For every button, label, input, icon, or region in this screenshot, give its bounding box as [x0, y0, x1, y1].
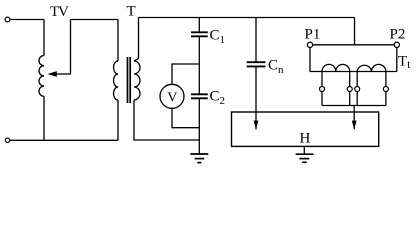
wire Cn bottom lead with arrow into H box — [255, 66, 257, 129]
wire top main bus — [139, 17, 355, 19]
terminal J1 (top-left input) — [5, 17, 10, 22]
svg-text:P2: P2 — [390, 27, 406, 43]
svg-text:T: T — [127, 4, 136, 20]
svg-text:V: V — [167, 90, 177, 105]
wire Tt stub 4 — [385, 72, 387, 106]
transformer T core — [128, 57, 131, 103]
svg-text:Tt: Tt — [398, 54, 411, 72]
terminal P1 — [307, 42, 312, 47]
wire voltmeter bottom branch — [172, 108, 199, 127]
wire Tt stub 3 — [356, 72, 358, 106]
wire Tt bottom bar — [310, 71, 397, 73]
wire Tt top feed — [354, 18, 356, 45]
wire voltmeter top branch — [172, 64, 199, 84]
transformer T primary winding — [114, 61, 118, 100]
svg-text:C2: C2 — [210, 89, 226, 108]
ground G1 — [198, 140, 200, 154]
wire C1-C2 link — [198, 36, 200, 94]
wire Tt bottom bus — [322, 105, 386, 107]
wire Tt stub 1 — [321, 72, 323, 106]
wire top-left: terminal to TV top — [10, 19, 44, 21]
wire Cn top lead — [255, 18, 257, 63]
Tt winding W1 — [322, 64, 350, 71]
capacitor C1 — [191, 32, 208, 36]
terminal J2 (bottom-left input) — [5, 138, 9, 142]
svg-text:P1: P1 — [305, 27, 321, 43]
wire bottom-left bus — [10, 139, 118, 141]
wire TV bottom lead — [43, 96, 45, 140]
wire C1 top lead — [198, 18, 200, 33]
wire C2 bottom lead — [198, 98, 200, 141]
wire T secondary top lead — [134, 18, 139, 62]
wire TV top lead — [43, 20, 45, 56]
terminal P2 — [394, 42, 399, 47]
wire tap to transformer T primary — [71, 19, 119, 21]
wire T primary top lead — [117, 20, 119, 62]
wire tap riser — [70, 20, 72, 75]
wire Tt tap to H box with arrow — [353, 106, 355, 130]
wire Tt stub 2 — [349, 72, 351, 106]
terminal t4 — [383, 87, 388, 92]
svg-text:TV: TV — [50, 4, 69, 20]
svg-text:C1: C1 — [210, 28, 226, 47]
box H — [232, 112, 379, 146]
autotransformer TV coil — [39, 56, 44, 97]
wire T secondary bottom lead — [134, 100, 199, 140]
wire T primary bottom lead — [117, 100, 119, 140]
TV tap arrow — [57, 73, 71, 75]
capacitor C2 — [191, 94, 208, 98]
terminal t1 — [320, 87, 325, 92]
Tt winding W2 — [357, 64, 386, 71]
ground G2 — [303, 146, 305, 154]
terminal t3 — [355, 87, 360, 92]
svg-text:Cn: Cn — [268, 58, 284, 77]
svg-text:H: H — [300, 130, 311, 146]
wire Tt top bar — [310, 44, 397, 46]
voltmeter V — [160, 84, 184, 108]
wire Tt right side — [396, 48, 398, 72]
wire Tt left side — [309, 48, 311, 72]
transformer T secondary winding — [134, 61, 140, 100]
capacitor Cn — [247, 62, 266, 66]
terminal t2 — [347, 87, 352, 92]
